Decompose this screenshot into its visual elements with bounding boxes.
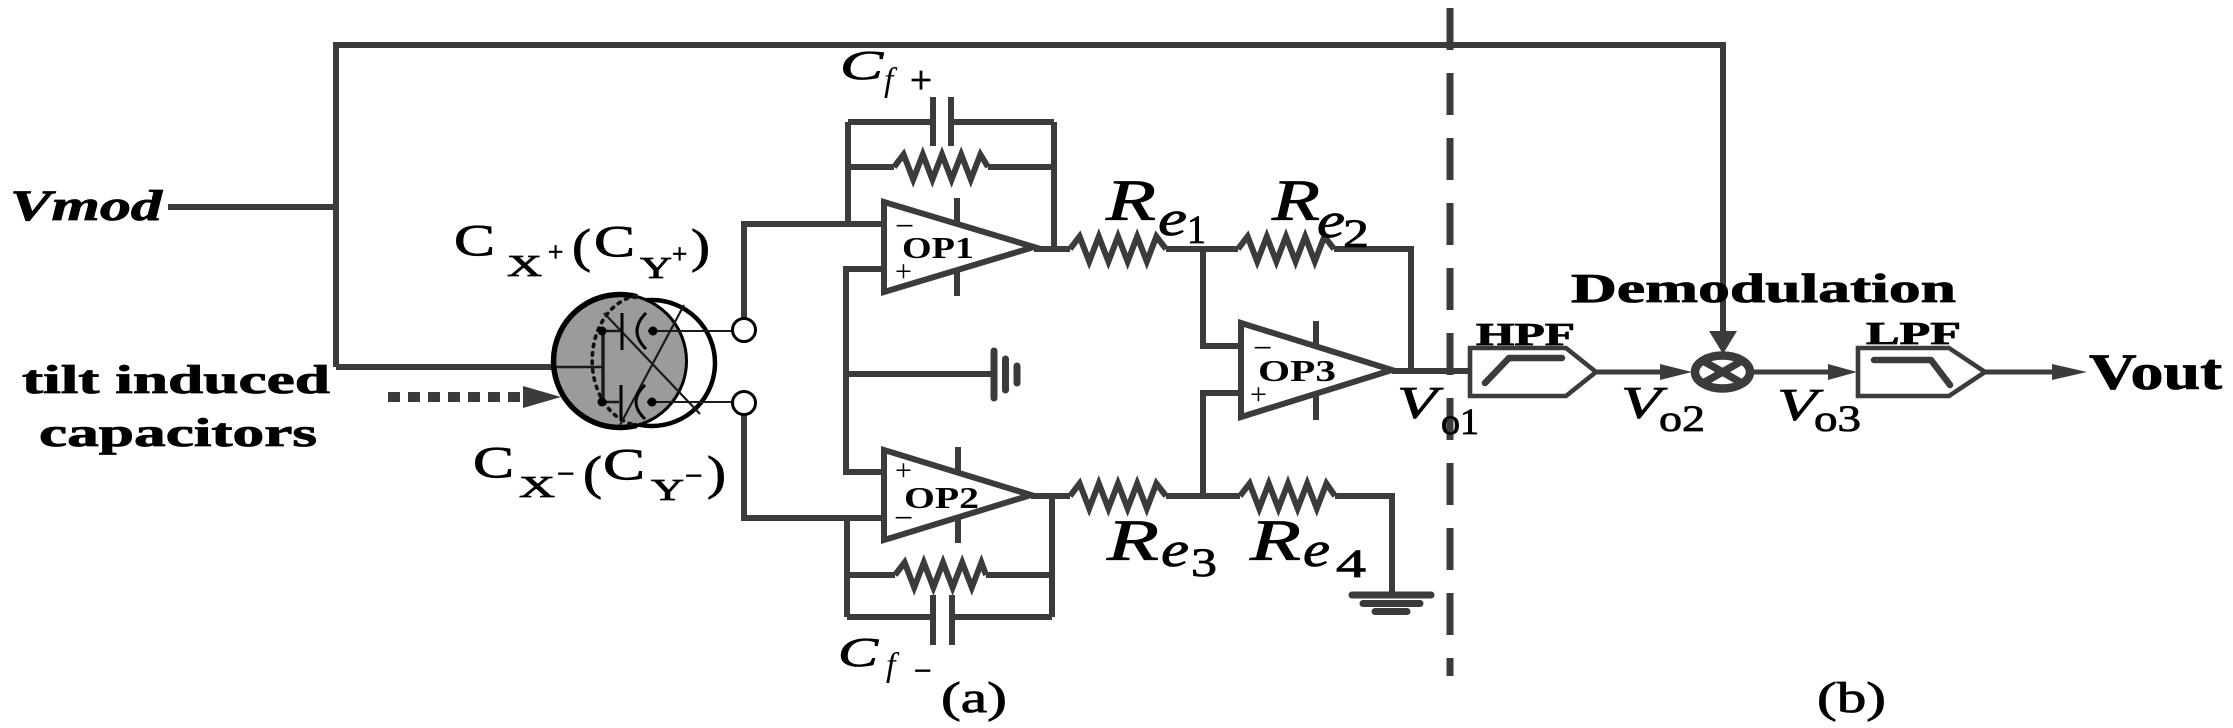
svg-text:OP1: OP1 <box>902 230 974 265</box>
svg-text:C: C <box>840 42 884 88</box>
svg-text:f: f <box>886 647 900 684</box>
capacitor Cf+ plates <box>930 97 936 146</box>
resistor OP2 feedback zigzag <box>895 563 986 588</box>
svg-text:o2: o2 <box>1659 399 1705 440</box>
wire OP1 noninverting input rail <box>846 269 884 472</box>
svg-text:C: C <box>454 216 495 265</box>
svg-text:e: e <box>1161 521 1189 577</box>
svg-text:o3: o3 <box>1814 399 1861 440</box>
svg-text:V: V <box>1397 377 1444 428</box>
wire OP1 output <box>1034 246 1070 252</box>
wire OP2 feedback right vertical <box>1049 496 1055 617</box>
resistor OP1 feedback zigzag <box>894 155 988 180</box>
wire top modulation rail <box>336 45 1723 367</box>
capacitor Cf- plates <box>930 595 936 645</box>
svg-text:−: − <box>914 653 931 688</box>
svg-text:e: e <box>1303 521 1330 577</box>
svg-text:R: R <box>1271 168 1320 233</box>
svg-text:C: C <box>594 217 635 266</box>
svg-text:(: ( <box>572 220 591 273</box>
svg-text:Vmod: Vmod <box>10 183 164 230</box>
resistor Re2 zigzag <box>1238 237 1334 262</box>
svg-text:OP3: OP3 <box>1258 353 1336 388</box>
wire ground rail <box>846 371 991 377</box>
resistor Re3 zigzag <box>1070 484 1166 509</box>
arrow into demodulator from top <box>1709 331 1737 354</box>
svg-text:R: R <box>1106 508 1159 573</box>
wire Re1 to Re2 <box>1166 246 1238 252</box>
diagonal cross wire 1 <box>604 313 700 414</box>
svg-text:o1: o1 <box>1441 402 1479 443</box>
svg-text:1: 1 <box>1187 207 1206 252</box>
svg-text:capacitors: capacitors <box>39 410 317 455</box>
ground (signal, rotated) <box>994 351 1017 398</box>
op-amp OP3 <box>1241 321 1392 420</box>
wire junction to OP3 noninverting input <box>1203 393 1241 496</box>
diagonal cross wire 2 <box>620 305 684 425</box>
node dots <box>598 327 658 407</box>
capacitor CX+ plates <box>622 313 646 350</box>
svg-text:LPF: LPF <box>1866 315 1961 351</box>
wire OP1 feedback right vertical <box>1051 122 1057 249</box>
svg-text:): ) <box>691 220 710 273</box>
demodulator multiplier <box>1695 356 1750 389</box>
wire top cap right lead to terminal <box>648 330 733 332</box>
resistor Re4 zigzag <box>1240 484 1335 509</box>
wire top cap left lead <box>603 330 620 333</box>
svg-text:+: + <box>910 59 932 102</box>
wire HPF to demodulator <box>1596 364 1692 380</box>
wire Re2 to OP3 output feedback <box>1334 249 1411 371</box>
wire sensor feed inside <box>556 366 603 369</box>
svg-text:f: f <box>884 62 898 99</box>
svg-text:e: e <box>1158 190 1187 246</box>
svg-text:OP2: OP2 <box>904 480 979 515</box>
svg-text:HPF: HPF <box>1476 316 1575 352</box>
sensor internal wires <box>556 305 733 425</box>
dashed tilt arrow <box>388 386 561 408</box>
sphere left outline arc (thick) <box>554 295 637 428</box>
svg-text:−: − <box>557 456 574 491</box>
wire common electrode rail <box>601 331 604 402</box>
wire OP1 feedback left vertical <box>845 122 851 224</box>
svg-text:−: − <box>685 458 702 493</box>
wire demodulator to LPF <box>1753 364 1857 380</box>
svg-text:X: X <box>519 469 555 504</box>
svg-text:3: 3 <box>1191 540 1217 585</box>
svg-text:+: + <box>548 237 563 267</box>
svg-text:C: C <box>473 438 514 487</box>
svg-text:2: 2 <box>1343 211 1369 256</box>
svg-text:(a): (a) <box>941 675 1007 722</box>
svg-text:): ) <box>707 447 726 500</box>
dashed separator line <box>1447 8 1454 676</box>
wire Re3 to Re4 <box>1166 493 1240 499</box>
svg-text:tilt induced: tilt induced <box>22 357 330 402</box>
wire OP3 output to HPF <box>1392 368 1470 374</box>
svg-text:C: C <box>838 629 879 675</box>
svg-text:R: R <box>1249 508 1301 573</box>
resistor OP2 feedback leads <box>847 572 895 578</box>
HPF block <box>1470 348 1596 396</box>
svg-text:Vout: Vout <box>2089 345 2222 401</box>
svg-text:C: C <box>603 440 645 489</box>
ground (below Re4) <box>1352 595 1431 612</box>
terminal node bottom <box>733 392 756 415</box>
wire top terminal to OP1 inverting input <box>744 224 884 319</box>
op-amp OP1 <box>884 198 1034 296</box>
wire OP2 feedback left vertical <box>844 518 850 617</box>
wire bottom terminal to OP2 inverting input <box>744 415 884 518</box>
svg-text:(: ( <box>583 447 602 500</box>
svg-text:4: 4 <box>1336 541 1366 586</box>
svg-text:R: R <box>1105 168 1156 233</box>
wire OP2 output <box>1031 493 1070 499</box>
wire sensor feed <box>336 364 557 370</box>
resistor Re1 zigzag <box>1070 237 1166 262</box>
wire bottom cap right lead to terminal <box>647 401 733 403</box>
svg-text:+: + <box>672 239 687 269</box>
capacitor Cf- rail <box>847 614 931 620</box>
LPF block <box>1858 348 1985 396</box>
op-amp OP2 <box>884 447 1031 543</box>
tilt sensor gray sphere <box>554 295 687 428</box>
wire junction to OP3 inverting input <box>1203 249 1241 346</box>
wire LPF to Vout <box>1985 364 2087 380</box>
wire Vmod feed <box>168 204 336 210</box>
wire bottom cap left lead <box>603 401 619 404</box>
svg-text:X: X <box>507 248 542 283</box>
dotted meridian arc <box>592 296 636 425</box>
svg-text:Demodulation: Demodulation <box>1571 265 1956 311</box>
capacitor CX- plates <box>621 385 645 421</box>
terminal node top <box>733 319 756 342</box>
capacitor Cf+ rail <box>848 119 931 125</box>
svg-text:(b): (b) <box>1817 675 1886 722</box>
resistor OP1 feedback leads <box>848 164 894 170</box>
svg-text:Y: Y <box>651 472 684 507</box>
svg-text:e: e <box>1317 192 1345 248</box>
svg-text:Y: Y <box>640 250 672 285</box>
tilt sensor ball outer circle <box>589 300 715 426</box>
wire Re4 to ground <box>1335 496 1392 594</box>
